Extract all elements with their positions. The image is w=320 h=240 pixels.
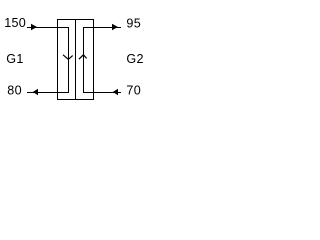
wire G1 down-channel bbox=[68, 27, 70, 93]
svg-text:95: 95 bbox=[126, 16, 141, 30]
heat exchanger outer shell right wall bbox=[93, 19, 95, 100]
svg-text:150: 150 bbox=[4, 16, 26, 30]
heat exchanger middle partition wall bbox=[75, 19, 77, 100]
heat exchanger outer shell bottom wall bbox=[57, 99, 94, 101]
wire G1 outlet (bottom-left, node 80) bbox=[27, 92, 69, 94]
arrow G2 inlet (points left) bbox=[113, 89, 118, 95]
wire G1 inlet (top-left, node 150) bbox=[27, 27, 69, 29]
arrow G2 outlet (points right) bbox=[112, 24, 118, 30]
heat exchanger outer shell top wall bbox=[57, 19, 94, 21]
wire G2 outlet (top-right, node 95) bbox=[83, 27, 121, 29]
svg-text:70: 70 bbox=[126, 83, 141, 97]
wire G2 up-channel bbox=[83, 27, 85, 93]
flow chevron down on G1 channel bbox=[63, 55, 73, 60]
svg-text:G1: G1 bbox=[6, 52, 23, 66]
background bbox=[0, 0, 150, 109]
svg-text:G2: G2 bbox=[126, 52, 143, 66]
svg-text:80: 80 bbox=[7, 83, 22, 97]
arrow G1 outlet (points left) bbox=[33, 89, 38, 95]
flow chevron up on G2 channel bbox=[79, 55, 87, 59]
arrow G1 inlet (points right) bbox=[31, 24, 37, 30]
wire G2 inlet (bottom-right, node 70) bbox=[83, 92, 121, 94]
heat exchanger outer shell left wall bbox=[57, 19, 59, 100]
